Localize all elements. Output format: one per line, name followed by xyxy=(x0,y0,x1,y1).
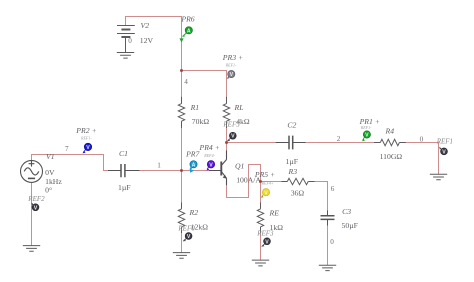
svg-text:1µF: 1µF xyxy=(118,183,131,192)
svg-text:110GΩ: 110GΩ xyxy=(380,152,403,161)
svg-text:REF0: REF0 xyxy=(177,224,195,232)
probe PR5 xyxy=(254,170,275,198)
svg-text:0: 0 xyxy=(330,238,334,246)
ground below V1 xyxy=(23,246,40,252)
capacitor C1 xyxy=(108,164,140,177)
svg-text:PR5 +: PR5 + xyxy=(254,170,275,179)
resistor R1 xyxy=(178,97,184,128)
svg-text:REF4+: REF4+ xyxy=(261,181,274,186)
svg-text:V1: V1 xyxy=(46,152,55,161)
junction collector node xyxy=(225,141,228,144)
battery V2 xyxy=(117,26,135,53)
wire C1 to node 1 xyxy=(140,170,182,172)
svg-text:REF4-: REF4- xyxy=(203,153,215,158)
junction emitter node xyxy=(259,180,262,183)
probe PR2 xyxy=(75,126,96,153)
svg-text:V: V xyxy=(264,190,268,196)
svg-text:V: V xyxy=(187,234,191,240)
svg-text:0: 0 xyxy=(128,37,132,45)
svg-text:REF2: REF2 xyxy=(27,195,45,203)
capacitor C3 xyxy=(321,210,335,225)
svg-text:REF1-: REF1- xyxy=(80,136,92,141)
probe REF5 xyxy=(227,132,236,141)
svg-text:12V: 12V xyxy=(140,36,154,45)
probe PR1 xyxy=(359,117,380,141)
svg-text:70kΩ: 70kΩ xyxy=(192,117,210,126)
probe REF3 xyxy=(261,238,270,247)
svg-text:R4: R4 xyxy=(385,127,395,136)
svg-text:REF1-: REF1- xyxy=(360,125,372,130)
svg-text:PR7: PR7 xyxy=(185,150,200,159)
svg-text:PR3 +: PR3 + xyxy=(222,53,243,62)
resistor R4 xyxy=(374,139,406,145)
wire node 1 down through R2 to ground xyxy=(181,171,183,253)
probe PR6 xyxy=(179,15,194,43)
wire node 4 branch to RL xyxy=(182,71,227,143)
svg-text:V: V xyxy=(231,134,235,140)
probe PR3 xyxy=(222,53,243,79)
AC source V1 xyxy=(21,160,43,182)
svg-text:V: V xyxy=(442,149,446,155)
resistor R2 xyxy=(178,203,184,234)
resistor RE xyxy=(257,203,263,234)
svg-text:RL: RL xyxy=(234,103,244,112)
svg-text:A: A xyxy=(187,28,191,34)
wire collector stub xyxy=(226,143,228,151)
wire V1 bottom to ground xyxy=(31,182,33,245)
svg-text:R2: R2 xyxy=(189,208,199,217)
svg-text:V: V xyxy=(209,162,213,168)
svg-text:7: 7 xyxy=(65,145,69,153)
svg-text:REF3: REF3 xyxy=(256,230,274,238)
wire emitter loop to node of R3 and RE xyxy=(227,165,261,203)
capacitor C2 xyxy=(276,136,306,150)
svg-text:C1: C1 xyxy=(119,149,128,158)
svg-text:4: 4 xyxy=(184,78,188,86)
resistor RL xyxy=(223,97,229,128)
svg-text:V2: V2 xyxy=(141,21,150,30)
svg-text:Q1: Q1 xyxy=(235,162,245,171)
wire R3 to C3 to ground xyxy=(315,182,328,266)
svg-text:PR4 +: PR4 + xyxy=(199,143,220,152)
wire RE bottom to ground xyxy=(260,227,262,260)
svg-text:C2: C2 xyxy=(287,121,296,130)
wire battery top rail to node 4 xyxy=(126,17,182,71)
svg-text:1µF: 1µF xyxy=(286,157,299,166)
svg-text:PR6: PR6 xyxy=(180,15,194,24)
svg-text:V: V xyxy=(365,133,369,139)
svg-text:REF5: REF5 xyxy=(222,121,240,129)
wire emitter node to R3 xyxy=(261,181,282,183)
svg-text:R3: R3 xyxy=(288,167,298,176)
wire V1 to C1 xyxy=(32,155,109,171)
wire node 1 to base xyxy=(182,170,210,172)
svg-text:2: 2 xyxy=(337,135,341,143)
probe REF0 xyxy=(183,233,192,242)
svg-text:0V: 0V xyxy=(45,168,55,177)
ground below C3 xyxy=(319,265,336,270)
svg-text:RE: RE xyxy=(269,209,280,218)
svg-text:V: V xyxy=(34,205,38,211)
wire collector node row to output corner and ground xyxy=(227,143,439,175)
ground below RE xyxy=(252,260,269,266)
svg-text:V: V xyxy=(86,145,90,151)
probe REF1 xyxy=(439,147,447,156)
junction node 1 xyxy=(180,169,183,172)
svg-text:0°: 0° xyxy=(45,186,52,195)
svg-text:50µF: 50µF xyxy=(342,221,358,230)
probe PR7 xyxy=(185,150,200,173)
svg-text:REF1: REF1 xyxy=(436,138,453,146)
wire node 4 down through R1 to node 1 xyxy=(181,71,183,171)
svg-text:V: V xyxy=(230,72,234,78)
junction node 4 xyxy=(180,69,183,72)
transistor Q1 xyxy=(209,151,227,186)
svg-text:R1: R1 xyxy=(190,103,200,112)
svg-text:REF1-: REF1- xyxy=(225,63,237,68)
svg-text:A: A xyxy=(192,162,196,168)
svg-text:0: 0 xyxy=(420,135,424,143)
probe PR4 xyxy=(199,143,220,170)
svg-text:C3: C3 xyxy=(342,207,351,216)
ground below R2 xyxy=(173,253,190,259)
svg-text:V: V xyxy=(265,239,269,245)
ground below V2 xyxy=(117,53,134,59)
svg-text:PR2 +: PR2 + xyxy=(75,126,96,135)
svg-text:6: 6 xyxy=(331,185,335,193)
ground at output xyxy=(430,174,447,180)
resistor R3 xyxy=(281,178,314,184)
svg-text:36Ω: 36Ω xyxy=(291,189,305,198)
svg-text:1: 1 xyxy=(157,162,161,170)
probe REF2 xyxy=(31,202,39,211)
